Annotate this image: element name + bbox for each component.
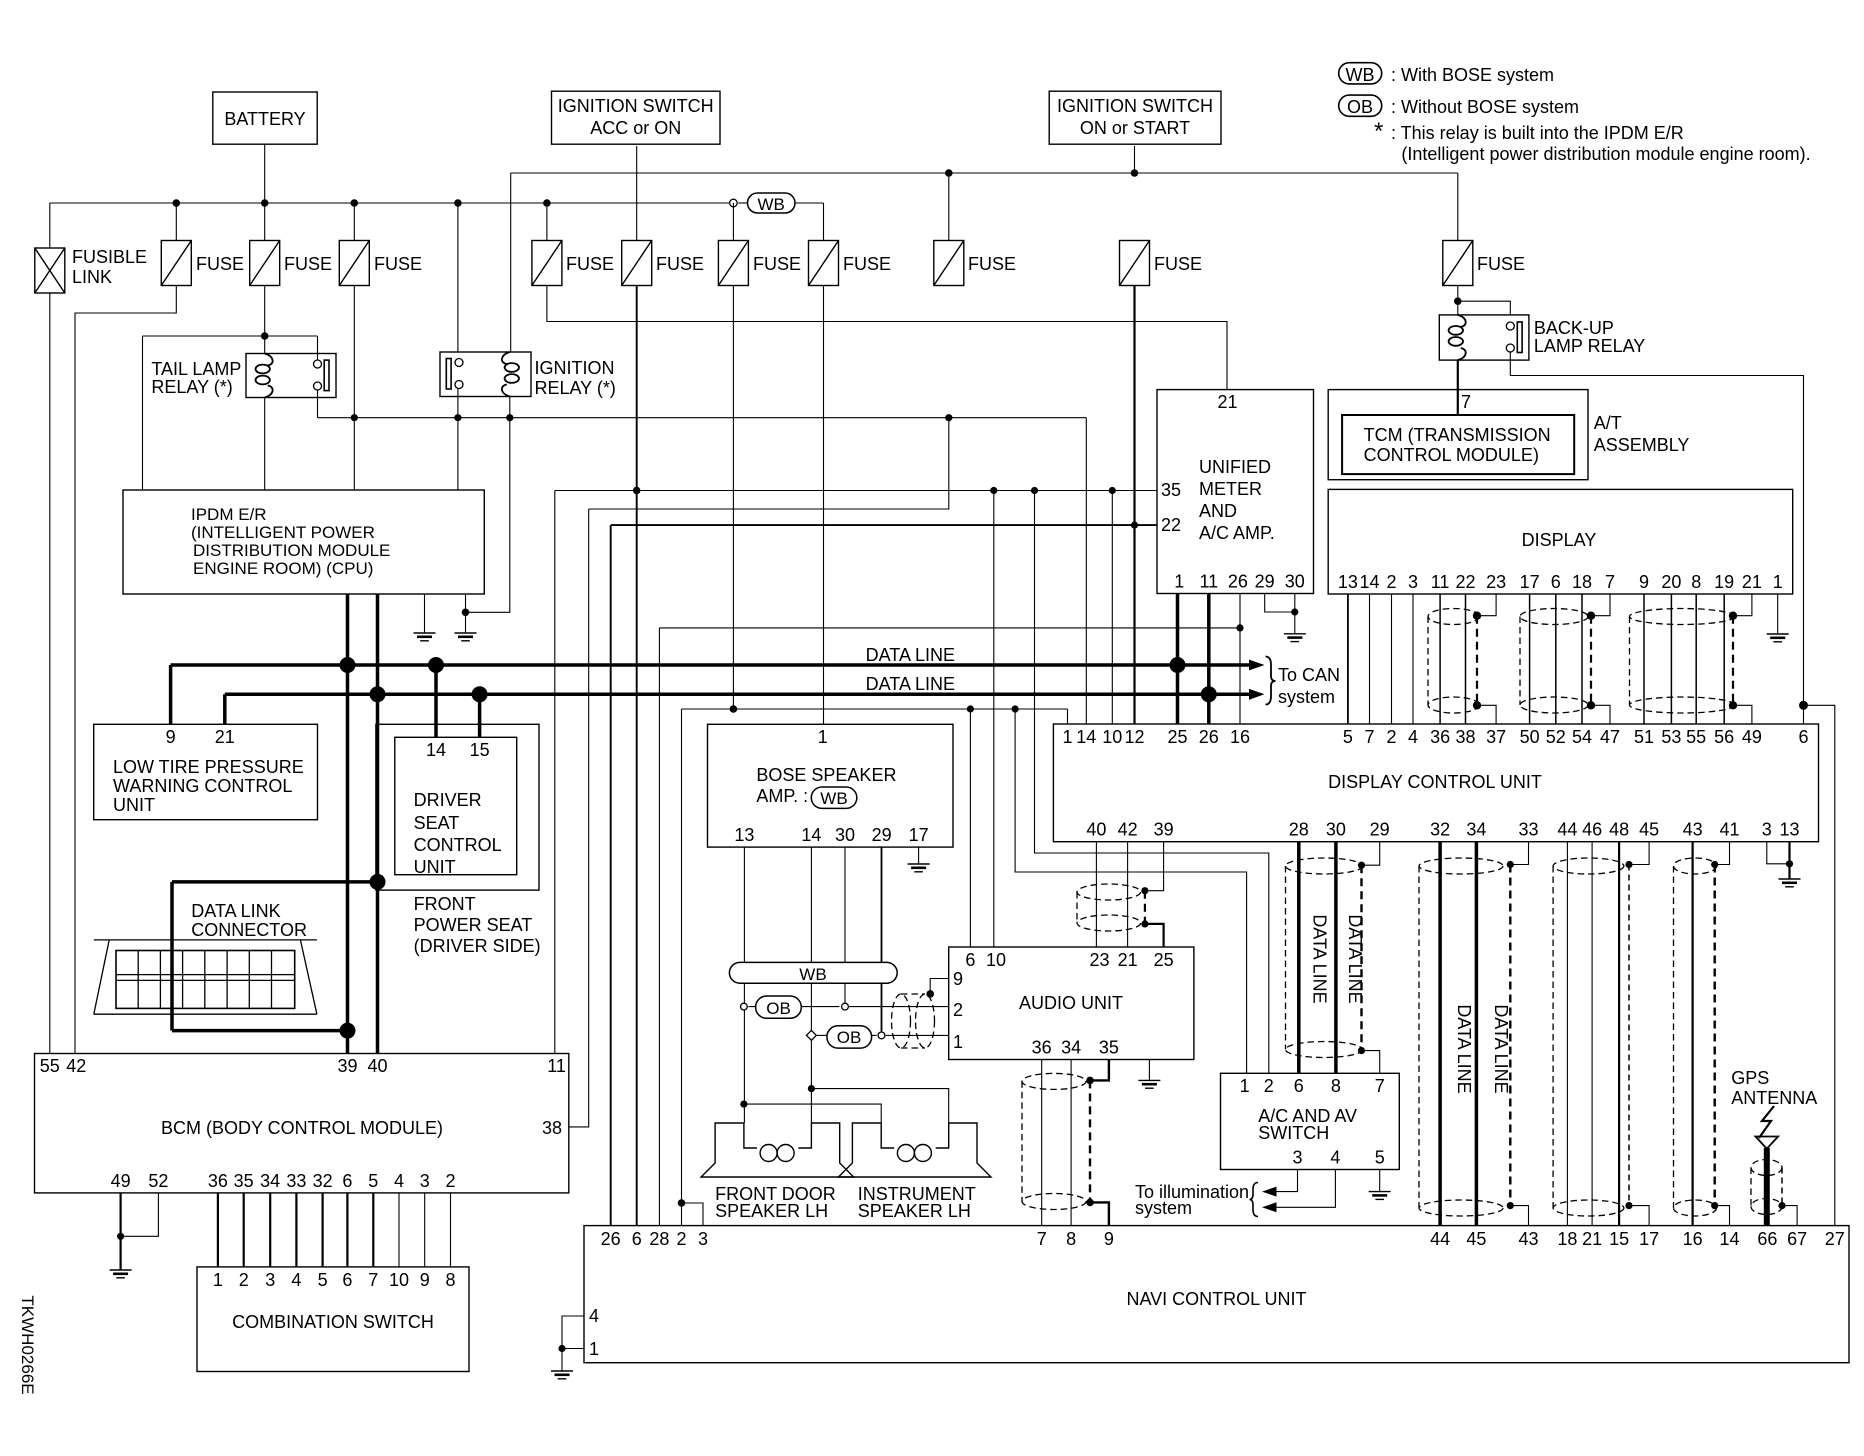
svg-text:ACC or ON: ACC or ON	[590, 118, 681, 138]
svg-text:AUDIO UNIT: AUDIO UNIT	[1019, 993, 1123, 1013]
wire BCM49 to ground	[119, 1193, 121, 1270]
svg-text:DISPLAY CONTROL UNIT: DISPLAY CONTROL UNIT	[1328, 772, 1542, 792]
junction bus-ign relay contact	[454, 199, 462, 207]
wire DCU43 to NAVI16	[1691, 842, 1693, 1226]
svg-text:OB: OB	[837, 1028, 862, 1047]
fusible link FL	[35, 248, 65, 293]
svg-text:system: system	[1135, 1198, 1192, 1218]
wire display 22 to DCU 38	[1465, 594, 1467, 724]
backup contact bottom	[1506, 344, 1514, 352]
wire to NAVI pin 27	[1804, 705, 1835, 1225]
svg-text:5: 5	[318, 1270, 328, 1290]
shield drain wire 2	[1590, 616, 1592, 706]
svg-text:3: 3	[420, 1171, 430, 1191]
svg-text:14: 14	[801, 825, 821, 845]
svg-text:: This relay is built into the: : This relay is built into the IPDM E/R	[1391, 123, 1684, 143]
wire AC3 to illumination	[1276, 1170, 1298, 1192]
tail relay feed line y=336	[143, 335, 318, 337]
svg-text:FUSE: FUSE	[1154, 254, 1202, 274]
data link connector bold wiring	[170, 882, 174, 1031]
svg-text:21: 21	[1217, 392, 1237, 412]
wire DCU34 to NAVI45 data line	[1475, 842, 1479, 1226]
svg-text:UNIFIED: UNIFIED	[1199, 457, 1271, 477]
svg-text:29: 29	[872, 825, 892, 845]
shield connector display 1	[1428, 609, 1479, 714]
wire bus corner down to fuse F8	[823, 203, 825, 241]
svg-text:11: 11	[1431, 572, 1450, 592]
svg-text:AND: AND	[1199, 501, 1237, 521]
wire BCM32 to comb switch	[322, 1193, 324, 1267]
junction audio10	[990, 487, 997, 494]
svg-text:41: 41	[1719, 820, 1739, 840]
svg-text:UNIT: UNIT	[113, 795, 155, 815]
wire CAN1 to LTP pin9	[169, 665, 173, 724]
svg-text:CONNECTOR: CONNECTOR	[191, 920, 307, 940]
svg-text:BATTERY: BATTERY	[224, 109, 305, 129]
svg-text:19: 19	[1714, 572, 1734, 592]
svg-text:49: 49	[1742, 727, 1762, 747]
svg-text:25: 25	[1167, 727, 1187, 747]
shield drain J	[1713, 865, 1715, 1206]
shield connector audio	[1077, 884, 1141, 931]
svg-text:: With BOSE system: : With BOSE system	[1391, 65, 1554, 85]
bus line B (battery) y=203	[50, 202, 730, 204]
svg-text:36: 36	[1032, 1038, 1052, 1058]
fuse F4	[532, 241, 562, 286]
A/C and AV switch box U10	[1221, 1073, 1400, 1169]
wire DCU41 to shield	[1715, 842, 1730, 865]
svg-text:4: 4	[1330, 1148, 1340, 1168]
fuse F3	[339, 241, 369, 286]
svg-text:FUSE: FUSE	[374, 254, 422, 274]
wire to tail relay contact	[317, 336, 319, 360]
junction pin6/navi27	[1799, 701, 1808, 710]
svg-text:DATA LINE: DATA LINE	[1310, 914, 1330, 1003]
ign relay contact top	[455, 359, 463, 367]
svg-text:COMBINATION SWITCH: COMBINATION SWITCH	[232, 1312, 434, 1332]
wire F7 to DCU pin 12	[1133, 286, 1135, 725]
svg-text:55: 55	[40, 1056, 60, 1076]
wire DCU40 to audio23	[1095, 842, 1097, 947]
svg-text:4: 4	[589, 1306, 599, 1326]
wire GPS antenna to NAVI66	[1764, 1148, 1770, 1226]
audio unit box U9	[949, 947, 1194, 1060]
svg-text:37: 37	[1486, 727, 1506, 747]
junction front spk right - inst right	[808, 1085, 815, 1092]
combination switch box U12	[197, 1267, 469, 1372]
svg-text:1: 1	[1174, 572, 1184, 592]
svg-text:48: 48	[1609, 820, 1629, 840]
wire to ground	[561, 1349, 563, 1372]
wire display 6 to DCU 52	[1555, 594, 1557, 724]
wire F4 to unified meter pin21	[547, 286, 1227, 390]
svg-text:10: 10	[986, 950, 1006, 970]
svg-text:FUSE: FUSE	[656, 254, 704, 274]
svg-text:9: 9	[953, 969, 963, 989]
svg-text:WB: WB	[758, 195, 785, 214]
connector circle OB1 right	[842, 1003, 849, 1010]
wire bus to F1	[175, 203, 177, 241]
backup contact top	[1506, 322, 1514, 330]
ground DCU	[1779, 879, 1801, 887]
wire tail contact down	[317, 390, 319, 418]
svg-text:6: 6	[342, 1171, 352, 1191]
wire BOSE30 down to OB circle	[844, 847, 846, 1007]
wire UM11 to DCU26	[1207, 594, 1211, 725]
ground NAVI	[551, 1371, 573, 1379]
wire lineA corner to fuse F9	[1457, 173, 1459, 241]
WB oval on bus	[748, 193, 796, 213]
svg-text:13: 13	[734, 825, 754, 845]
svg-text:GPS: GPS	[1731, 1068, 1769, 1088]
wire to audio pin 10	[993, 491, 995, 948]
svg-text:10: 10	[1102, 727, 1122, 747]
ign relay coil	[502, 352, 519, 397]
tail relay coil	[256, 354, 273, 398]
wire to NAVI pin 26	[610, 525, 612, 1226]
wire BCM3 to comb switch	[424, 1193, 426, 1267]
wire BCM34 to comb switch	[269, 1193, 271, 1267]
svg-text:3: 3	[1762, 820, 1772, 840]
IPDM E/R box U1	[123, 490, 484, 594]
svg-text:TAIL LAMP: TAIL LAMP	[151, 359, 241, 379]
wire shield to DCU 37	[1477, 705, 1496, 724]
wire F9 to backup relay	[1457, 286, 1459, 315]
svg-text:DATA LINK: DATA LINK	[191, 901, 280, 921]
shield connector audio-navi	[1022, 1073, 1086, 1209]
svg-text:49: 49	[111, 1171, 131, 1191]
wire display 14 to DCU	[1369, 594, 1371, 724]
svg-text:METER: METER	[1199, 479, 1262, 499]
fuse F2	[250, 241, 280, 286]
svg-text:WB: WB	[799, 965, 826, 984]
wire line418 to DCU pin 14	[1085, 418, 1087, 724]
ground AC switch	[1369, 1192, 1391, 1200]
svg-text:FUSE: FUSE	[843, 254, 891, 274]
svg-text:5: 5	[368, 1171, 378, 1191]
junction F6 feed	[945, 414, 952, 421]
wire display 7 to shield	[1591, 594, 1610, 616]
junction DCU10	[1109, 487, 1116, 494]
svg-text:40: 40	[1086, 820, 1106, 840]
wire shield to AC7	[1362, 1051, 1380, 1074]
svg-text:1: 1	[213, 1270, 223, 1290]
svg-text:6: 6	[965, 950, 975, 970]
wire bus to fusible link	[49, 203, 51, 248]
svg-text:46: 46	[1582, 820, 1602, 840]
unified meter and A/C amp box U4	[1157, 390, 1314, 594]
svg-text:26: 26	[1228, 572, 1248, 592]
TCM box U5	[1342, 415, 1574, 474]
svg-text:FUSE: FUSE	[1477, 254, 1525, 274]
svg-text:21: 21	[215, 727, 235, 747]
shield drain wire 3	[1732, 616, 1734, 706]
svg-text:5: 5	[1375, 1148, 1385, 1168]
svg-text:20: 20	[1661, 572, 1681, 592]
shield connector group J	[1674, 858, 1717, 1216]
fuse F9	[1443, 241, 1473, 286]
wire backup contact to DCU pin6	[1510, 352, 1803, 724]
legend OB oval	[1339, 95, 1382, 116]
line A ignition ON/START feed y=173	[511, 172, 1458, 174]
junction ign contact	[454, 414, 461, 421]
junction NAVI4-1	[558, 1345, 565, 1352]
wire to DCU pin 10	[1111, 491, 1113, 725]
svg-text:42: 42	[66, 1056, 86, 1076]
svg-text:56: 56	[1714, 727, 1734, 747]
svg-text:11: 11	[1199, 572, 1218, 592]
wire DCU44 to NAVI18	[1566, 842, 1568, 1226]
wire BCM5 to comb switch	[372, 1193, 374, 1267]
svg-text:35: 35	[234, 1171, 254, 1191]
svg-text:CONTROL MODULE): CONTROL MODULE)	[1364, 445, 1539, 465]
svg-text:8: 8	[445, 1270, 455, 1290]
svg-text:40: 40	[367, 1056, 387, 1076]
svg-text:2: 2	[239, 1270, 249, 1290]
wire shield to audio 25	[1145, 924, 1164, 947]
wire fusible link to BCM55	[49, 293, 51, 1054]
wire ign coil to ground join	[466, 397, 510, 613]
svg-text:CONTROL: CONTROL	[414, 835, 502, 855]
brace To CAN	[1266, 657, 1276, 705]
svg-text:A/C AMP.: A/C AMP.	[1199, 523, 1275, 543]
wire DCU3 join	[1767, 842, 1790, 864]
battery box B1	[213, 92, 317, 144]
svg-text:15: 15	[470, 740, 490, 760]
svg-text:LOW TIRE PRESSURE: LOW TIRE PRESSURE	[113, 757, 304, 777]
ground IPDM-2	[455, 633, 477, 641]
wire CAN1 to seat pin14	[434, 665, 438, 737]
wire display 17 to DCU 50	[1529, 594, 1531, 724]
svg-text:LAMP RELAY: LAMP RELAY	[1534, 336, 1645, 356]
wire BCM33 to comb switch	[295, 1193, 297, 1267]
svg-text:3: 3	[1292, 1148, 1302, 1168]
wire bus to F4	[546, 203, 548, 241]
svg-text:47: 47	[1600, 727, 1620, 747]
svg-text:FUSE: FUSE	[566, 254, 614, 274]
navi control unit box U13	[584, 1226, 1849, 1363]
svg-text:13: 13	[1338, 572, 1358, 592]
junction backup relay	[1454, 297, 1462, 305]
svg-text:ENGINE ROOM) (CPU): ENGINE ROOM) (CPU)	[193, 559, 373, 578]
svg-text:3: 3	[265, 1270, 275, 1290]
A/T assembly box	[1328, 390, 1588, 480]
wire to instrument speaker left	[744, 1104, 881, 1123]
wire DCU29 to shield	[1362, 842, 1380, 866]
fuse F6b	[718, 241, 748, 286]
driver seat control unit box U3	[395, 737, 517, 874]
wire IPDM ground 2	[465, 594, 467, 633]
svg-text:DISPLAY: DISPLAY	[1522, 530, 1597, 550]
ignition switch ACC box	[552, 91, 721, 144]
svg-text:BCM (BODY CONTROL MODULE): BCM (BODY CONTROL MODULE)	[161, 1118, 443, 1138]
ground IPDM-1	[414, 633, 436, 641]
svg-text:system: system	[1278, 687, 1335, 707]
wire to fuse F6	[948, 173, 950, 241]
svg-text:SPEAKER LH: SPEAKER LH	[715, 1201, 828, 1221]
wire GPS shield to NAVI67	[1782, 1206, 1797, 1226]
svg-text:2: 2	[676, 1229, 686, 1249]
svg-text:WARNING CONTROL: WARNING CONTROL	[113, 776, 292, 796]
line y=709 audio feed	[682, 708, 1068, 710]
svg-text:ASSEMBLY: ASSEMBLY	[1594, 435, 1690, 455]
svg-text:*: *	[1374, 118, 1383, 145]
junction CAN2-BCM40	[370, 686, 386, 702]
wire DCU28 to AC6 data line	[1297, 842, 1301, 1074]
svg-text:4: 4	[291, 1270, 301, 1290]
BCM box U11	[35, 1054, 569, 1193]
svg-text:(Intelligent power distributio: (Intelligent power distribution module e…	[1401, 144, 1810, 164]
tail relay contact top	[314, 360, 322, 368]
wire display 23 to shield	[1477, 594, 1496, 616]
wire to BCM pin 11	[554, 491, 556, 1054]
fuse F5	[622, 241, 652, 286]
svg-text:23: 23	[1089, 950, 1109, 970]
shield drain wire 1	[1476, 616, 1478, 706]
fuse F6	[934, 241, 964, 286]
svg-text:33: 33	[1518, 820, 1538, 840]
wire IPDM ground 1	[424, 594, 426, 633]
wire DCU32 to NAVI44 data line	[1438, 842, 1442, 1226]
svg-text:FUSE: FUSE	[968, 254, 1016, 274]
svg-text:38: 38	[1455, 727, 1475, 747]
svg-text:DRIVER: DRIVER	[414, 790, 482, 810]
wire BCM36 to comb switch	[217, 1193, 219, 1267]
junction AC2 line	[1031, 487, 1038, 494]
svg-text:7: 7	[1037, 1229, 1047, 1249]
shield drain H	[1509, 865, 1511, 1206]
svg-text:3: 3	[1408, 572, 1418, 592]
junction DCU3-13	[1786, 860, 1793, 867]
svg-text:: Without BOSE system: : Without BOSE system	[1391, 97, 1579, 117]
svg-text:1: 1	[1062, 727, 1072, 747]
wire UM29 join	[1265, 594, 1295, 613]
wire IGN ACC switch to fuse F5	[636, 146, 638, 241]
wire bus to F3	[353, 203, 355, 241]
svg-text:30: 30	[835, 825, 855, 845]
wire AC5 ground	[1379, 1170, 1381, 1192]
backup relay coil	[1449, 315, 1466, 360]
svg-text:DATA LINE: DATA LINE	[866, 674, 955, 694]
wire F8 to BOSE amp pin 1	[823, 286, 825, 725]
svg-text:OB: OB	[1347, 97, 1373, 117]
svg-text:15: 15	[1609, 1229, 1629, 1249]
svg-text:42: 42	[1118, 820, 1138, 840]
wire display 19 to DCU 56	[1723, 594, 1725, 724]
wire DCU46 to NAVI21	[1591, 842, 1593, 1226]
shield connector AC data lines	[1286, 858, 1363, 1058]
svg-text:DATA LINE: DATA LINE	[1454, 1004, 1474, 1093]
wire to unified meter pin 22	[1135, 524, 1158, 526]
junction bus-F2	[261, 199, 269, 207]
junction front spk - inst spk	[740, 1101, 747, 1108]
wire BOSE 17 to ground	[918, 847, 920, 864]
wire audio ground	[1148, 1060, 1150, 1081]
wire shield to DCU 49	[1733, 705, 1752, 724]
wire battery to bus	[264, 144, 266, 203]
svg-text:(DRIVER SIDE): (DRIVER SIDE)	[414, 936, 541, 956]
svg-text:FUSE: FUSE	[753, 254, 801, 274]
connector circle OB2 right	[878, 1032, 885, 1039]
driver seat control unit outer box	[376, 724, 539, 890]
wire F3 down to IPDM	[353, 286, 355, 491]
svg-text:17: 17	[909, 825, 929, 845]
wire tail coil to IPDM	[264, 398, 266, 491]
wire UM1 to DCU25	[1176, 594, 1180, 725]
wire to backup contact	[1458, 301, 1511, 315]
ignition relay K2	[440, 352, 531, 397]
svg-text:36: 36	[1430, 727, 1450, 747]
junction bus-F4	[543, 199, 551, 207]
wire display 13 to DCU	[1347, 594, 1349, 724]
wire to instrument speaker right	[811, 1089, 948, 1123]
wire NAVI4	[562, 1316, 584, 1349]
svg-text:18: 18	[1572, 572, 1592, 592]
connector diamond OB2 left	[806, 1030, 816, 1040]
junction IPDM gnd / ign coil	[462, 609, 470, 617]
wire DCU33 to shield	[1510, 842, 1528, 865]
svg-text:11: 11	[547, 1056, 566, 1076]
junction pin9-shield	[926, 990, 934, 998]
shield connector data line pair	[1419, 858, 1503, 1216]
shield connector display 3	[1630, 609, 1735, 714]
audio pin9 line	[930, 979, 949, 994]
fuse F8	[809, 241, 839, 286]
svg-text:43: 43	[1683, 820, 1703, 840]
svg-text:1: 1	[589, 1339, 599, 1359]
svg-text:14: 14	[426, 740, 446, 760]
svg-text:6: 6	[1798, 727, 1808, 747]
svg-text:WB: WB	[1346, 65, 1375, 85]
svg-text:6: 6	[1551, 572, 1561, 592]
svg-text:67: 67	[1787, 1229, 1807, 1249]
line y=509	[589, 418, 949, 509]
svg-text:UNIT: UNIT	[414, 857, 456, 877]
tail relay contact bottom	[314, 382, 322, 390]
unified meter pin35 line	[1112, 490, 1157, 492]
shield connector GPS	[1751, 1160, 1782, 1215]
svg-text:RELAY (*): RELAY (*)	[535, 378, 616, 398]
svg-text:18: 18	[1557, 1229, 1577, 1249]
svg-text:FRONT: FRONT	[414, 894, 476, 914]
svg-text:34: 34	[1061, 1038, 1081, 1058]
wire audio36 to NAVI7	[1041, 1060, 1043, 1226]
junction lineA-F6	[945, 169, 953, 177]
svg-text:2: 2	[1264, 1076, 1274, 1096]
wire to BCM pin 38	[569, 509, 589, 1127]
svg-text:14: 14	[1719, 1229, 1739, 1249]
svg-text:14: 14	[1359, 572, 1379, 592]
svg-text:39: 39	[1154, 820, 1174, 840]
wire DCU30 to AC8 data line	[1334, 842, 1338, 1074]
wire lineA to ignition relay coil	[510, 173, 512, 352]
svg-text:22: 22	[1161, 515, 1181, 535]
wire BOSE14 down to front speaker	[810, 847, 812, 1123]
junction GPS shield	[1778, 1202, 1785, 1209]
wire BCM6 to comb switch	[346, 1193, 348, 1267]
svg-text:ANTENNA: ANTENNA	[1731, 1088, 1817, 1108]
wire display 1 to ground	[1777, 594, 1779, 634]
svg-text:45: 45	[1639, 820, 1659, 840]
svg-text:29: 29	[1370, 820, 1390, 840]
junction CAN1-seat14	[428, 657, 444, 673]
wire NAVI1	[562, 1348, 584, 1350]
shield drain audio connector	[1144, 891, 1146, 924]
arrow illumination 1	[1262, 1187, 1277, 1197]
wire display 20 to DCU 53	[1670, 594, 1672, 724]
wire DCU42 to audio21	[1127, 842, 1129, 947]
wire audio34 to NAVI8	[1070, 1060, 1072, 1226]
